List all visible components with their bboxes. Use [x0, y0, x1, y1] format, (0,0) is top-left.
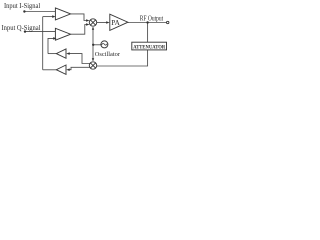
wire I-amp inverting input [43, 16, 54, 18]
amplifier U1 PA [110, 14, 128, 30]
wire I-amp output to top mixer [71, 14, 87, 21]
attenuator block [132, 42, 167, 50]
svg-text:Input Q-Signal: Input Q-Signal [2, 24, 41, 32]
op-amp A4 Q feedback amplifier [56, 65, 66, 74]
wire RF feedback down to attenuator [147, 23, 149, 43]
mixer M1 quadrature modulator [89, 19, 96, 26]
svg-text:PA: PA [111, 19, 120, 27]
terminal RF output [167, 21, 169, 23]
terminal I input [23, 10, 25, 12]
op-amp A2 Q difference amplifier [55, 28, 70, 40]
wire I-FB amp output to Q-amp [48, 53, 57, 55]
node LO junction [92, 44, 94, 46]
wire Q-FB amp output to I-amp [43, 69, 57, 71]
svg-text:RF Output: RF Output [140, 15, 163, 22]
arrow into PA [106, 21, 109, 24]
wire Q-amp output to top mixer [71, 25, 87, 35]
arrow into I-amp inverting input [52, 15, 55, 18]
wire RF output line [128, 22, 166, 24]
wire LO to oscillator [93, 44, 101, 46]
wire bottom mixer to Q-FB amp [69, 67, 90, 69]
oscillator OSC [101, 41, 108, 48]
wire Q input [25, 31, 58, 33]
wire I feedback vertical (node FB-I) [42, 17, 44, 70]
node RF feedback junction [146, 21, 148, 23]
wire attenuator to bottom mixer [97, 50, 148, 66]
arrow LO down into bottom mixer [92, 58, 94, 61]
wire Q-amp inverting input [48, 38, 55, 53]
mixer M2 quadrature demodulator [89, 62, 96, 69]
arrow Q into top mixer [86, 23, 89, 26]
wire I input [24, 11, 58, 13]
arrow into Q-FB amp [66, 68, 69, 71]
wire bottom mixer to I-FB amp [69, 54, 90, 64]
svg-text:Oscillator: Oscillator [95, 51, 121, 58]
arrow I into top mixer [86, 19, 89, 22]
arrow into I-FB amp [66, 52, 69, 55]
svg-text:Input I-Signal: Input I-Signal [4, 2, 40, 10]
op-amp A3 I feedback amplifier [56, 49, 66, 58]
wire top mixer to PA [97, 22, 107, 24]
arrow into Q-amp inverting input [53, 37, 56, 40]
svg-text:ATTENUATOR: ATTENUATOR [133, 44, 165, 50]
arrow LO up into top mixer [92, 27, 94, 30]
op-amp A1 I difference amplifier [55, 8, 70, 20]
terminal Q input [24, 30, 26, 32]
wire LO vertical [92, 27, 94, 61]
